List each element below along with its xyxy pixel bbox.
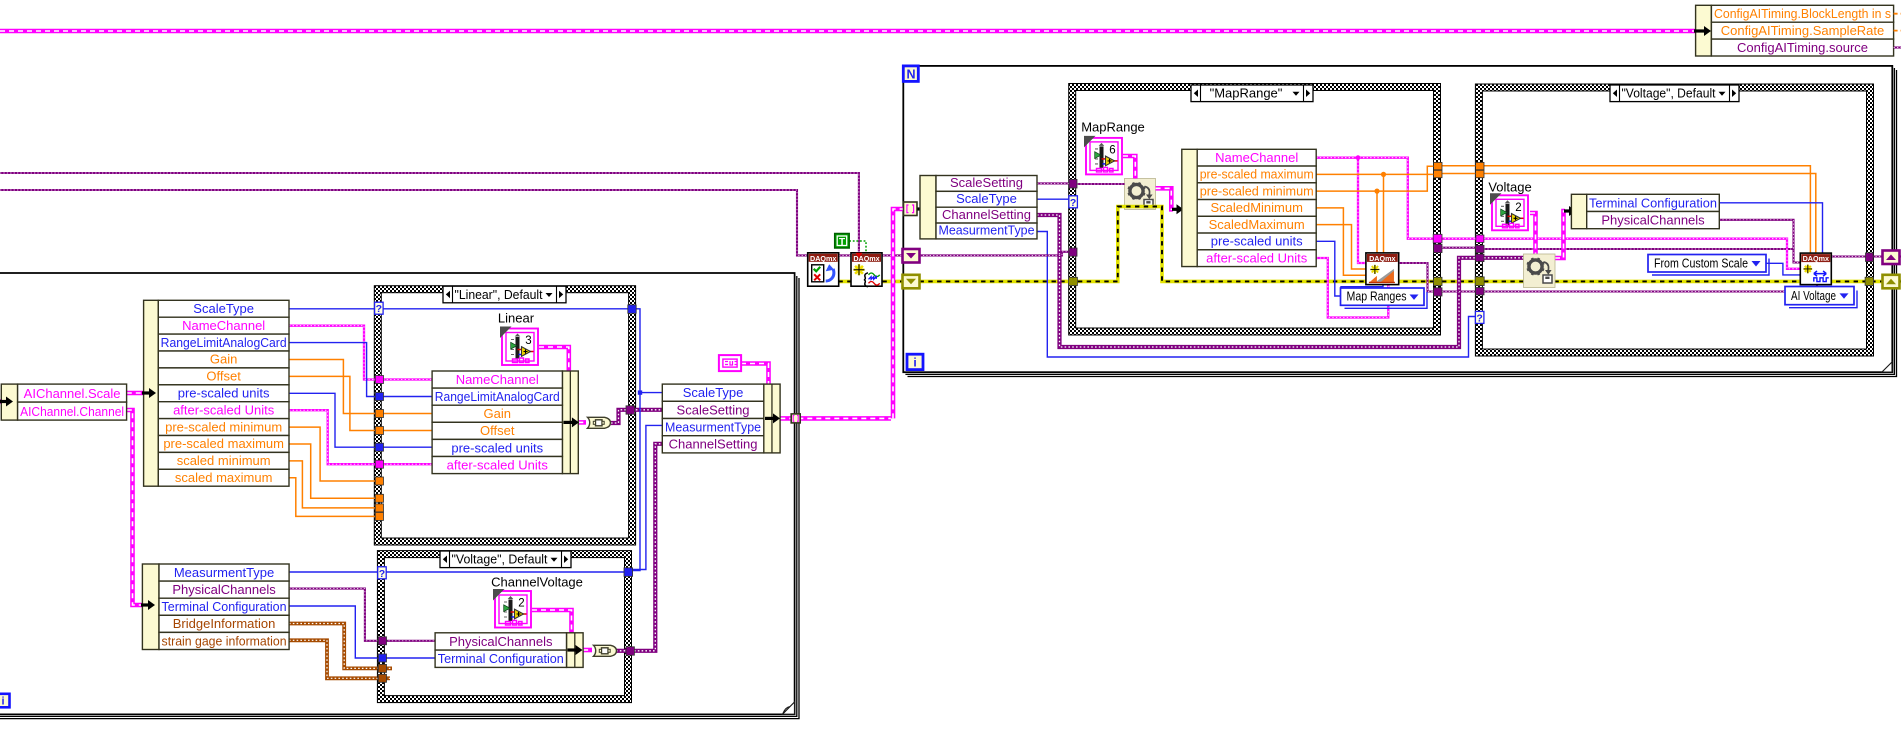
wire BlockLength output stub: [1894, 13, 1901, 15]
wire ChannelSetting wire to bundle: [634, 444, 662, 651]
subVI ChannelVoltage: [493, 589, 531, 628]
tunnel error right: [1434, 277, 1442, 285]
svg-text:pre-scaled maximum: pre-scaled maximum: [1200, 167, 1314, 182]
subVI Voltage: [1490, 193, 1528, 230]
wire task wire stub right edge: [1899, 255, 1901, 257]
tunnel error left V: [1475, 277, 1484, 286]
wire pre-scaled minimum wire: [1316, 166, 1433, 191]
wire channel settings array wire: [780, 416, 891, 421]
tunnel Offset L: [375, 427, 383, 435]
DAQmx Create Scale icon: [1366, 253, 1399, 285]
svg-text:Terminal Configuration: Terminal Configuration: [438, 651, 564, 666]
svg-text:NameChannel: NameChannel: [456, 372, 539, 387]
shift register purple left: [903, 249, 920, 263]
tunnel MeasurmentType out VL: [624, 568, 633, 577]
tunnel error in left: [1069, 277, 1078, 285]
bundle settings cluster: [662, 384, 780, 453]
unbundle AIChannel: [1, 384, 126, 420]
svg-text:3: 3: [525, 335, 531, 347]
junction NameChannel: [1356, 155, 1361, 160]
svg-text:DAQmx: DAQmx: [810, 254, 836, 263]
tunnel PhysicalChannels VL: [378, 637, 386, 645]
svg-text:DAQmx: DAQmx: [1803, 254, 1829, 263]
wire From Custom Scale ring wire: [1766, 263, 1801, 275]
svg-text:Terminal Configuration: Terminal Configuration: [1589, 195, 1717, 210]
wire pre-scaled maximum wire to tunnel: [289, 444, 375, 498]
cluster constant: [719, 355, 741, 371]
coercion dot: [856, 253, 863, 258]
svg-text:NameChannel: NameChannel: [1215, 150, 1298, 165]
wire variant gear 2 output wire: [1555, 211, 1565, 258]
wire NameChannel wire branch to scale VI: [1358, 158, 1367, 263]
ring constant AI Voltage: [1785, 287, 1857, 308]
case structure Linear: [374, 286, 635, 545]
wire bundle 2 output wire to convert: [583, 648, 592, 653]
wire NameChannel wire: [1316, 158, 1433, 239]
svg-text:ChannelVoltage: ChannelVoltage: [491, 575, 583, 590]
svg-text:6: 6: [1109, 144, 1115, 156]
tunnel psmax left V: [1476, 170, 1484, 177]
tunnel Gain L: [375, 410, 383, 418]
selector tunnel MapRange: [1069, 196, 1078, 209]
wire pre-scaled minimum in Voltage case: [1484, 166, 1810, 254]
svg-text:ScaleType: ScaleType: [683, 385, 744, 400]
DAQmx Create Channel icon: [1800, 253, 1831, 285]
tunnel ChannelSetting left V: [1476, 254, 1484, 261]
svg-text:BridgeInformation: BridgeInformation: [173, 616, 276, 631]
wire pre-scaled maximum between cases: [1442, 173, 1476, 175]
case label "Voltage", Default (right): [1610, 85, 1739, 102]
svg-text:ScaleSetting: ScaleSetting: [677, 402, 750, 417]
junction ScaleType: [638, 390, 642, 394]
wire ScaleType wire to selector: [289, 308, 376, 310]
wire purple task wire 2: [0, 190, 903, 255]
svg-text:pre-scaled minimum: pre-scaled minimum: [165, 419, 282, 434]
wire pre-scaled maximum in Voltage case: [1484, 174, 1816, 254]
tunnel task in left: [1069, 248, 1077, 256]
unbundle physical channels: [1571, 194, 1719, 228]
tunnel psmin left V: [1476, 162, 1484, 169]
loop output tunnel []: [791, 414, 800, 423]
unbundle settings in loop: [920, 175, 1037, 239]
svg-text:MapRange: MapRange: [1081, 120, 1145, 135]
wire MeasurmentType wire up to bundle: [632, 425, 662, 569]
wire error wire stub right edge: [1899, 280, 1901, 284]
tunnel ScaleSetting out L: [626, 406, 634, 414]
junction pre-scaled minimum: [1374, 189, 1379, 194]
convert icon Voltage: [594, 645, 617, 656]
svg-text:"Voltage", Default: "Voltage", Default: [1622, 86, 1716, 101]
svg-text:after-scaled Units: after-scaled Units: [447, 457, 549, 472]
wire task wire in Voltage case: [1484, 249, 1801, 263]
wire RangeLimitAnalogCard wire in case: [383, 396, 432, 398]
wire BridgeInformation stub in case: [385, 667, 392, 671]
wire MapRange VI output wire: [1123, 156, 1135, 179]
svg-text:scaled minimum: scaled minimum: [177, 453, 271, 468]
tunnel NameChannel right: [1433, 234, 1442, 243]
svg-text:"MapRange": "MapRange": [1210, 86, 1283, 101]
input arrow AIChannel: [0, 397, 13, 407]
svg-text:ConfigAITiming.source: ConfigAITiming.source: [1737, 40, 1868, 55]
svg-text:?: ?: [1476, 312, 1482, 324]
svg-text:PhysicalChannels: PhysicalChannels: [172, 582, 276, 597]
svg-text:ConfigAITiming.BlockLength in: ConfigAITiming.BlockLength in s: [1714, 6, 1891, 21]
svg-text:ChannelSetting: ChannelSetting: [669, 437, 758, 452]
boolean constant T: [835, 234, 850, 249]
svg-text:Gain: Gain: [210, 352, 237, 367]
unbundle scale settings: [144, 300, 289, 486]
output arrow settings cluster: [765, 413, 780, 423]
wire ScaleSetting wire: [1037, 182, 1069, 184]
wire Terminal Configuration wire: [1719, 203, 1823, 254]
tunnel error out right V: [1865, 277, 1873, 285]
wire pre-scaled minimum between cases: [1442, 165, 1476, 167]
svg-text:pre-scaled units: pre-scaled units: [1211, 234, 1303, 249]
wire scale task out wire: [1399, 263, 1434, 292]
tunnel scale task right: [1434, 288, 1442, 296]
wire NameChannel wire to Linear case: [289, 326, 375, 380]
tunnel strain VL: [378, 674, 386, 682]
wire ChannelVoltage VI output wire: [532, 610, 572, 633]
svg-text:"Voltage", Default: "Voltage", Default: [452, 552, 548, 567]
svg-text:ConfigAITiming.SampleRate: ConfigAITiming.SampleRate: [1721, 23, 1885, 38]
wire NameChannel wire in case: [383, 378, 432, 380]
tunnel pre-scaled min L: [375, 477, 383, 485]
wire strain gage stub in case: [385, 676, 390, 680]
svg-text:MeasurmentType: MeasurmentType: [174, 565, 274, 580]
wire Gain wire: [289, 360, 375, 414]
wire PhysicalChannels wire to case: [289, 589, 377, 641]
tunnel scale task left V: [1476, 288, 1484, 295]
svg-text:after-scaled Units: after-scaled Units: [1206, 250, 1308, 265]
svg-text:Offset: Offset: [480, 423, 515, 438]
wire ChannelSetting wire to variant gear 2: [1484, 256, 1524, 260]
svg-text:Terminal Configuration: Terminal Configuration: [162, 599, 287, 614]
wire AIChannel cluster input stub: [0, 399, 2, 404]
svg-text:ScaledMinimum: ScaledMinimum: [1210, 200, 1302, 215]
svg-text:From Custom Scale: From Custom Scale: [1654, 255, 1748, 270]
svg-text:Map Ranges: Map Ranges: [1347, 289, 1407, 304]
wire scale task between cases: [1442, 290, 1476, 292]
tunnel RangeLimit L: [375, 393, 383, 401]
wire ScaledMinimum wire: [1316, 208, 1367, 275]
wire channel cluster wire out of case: [616, 649, 626, 653]
svg-text:strain gage information: strain gage information: [162, 633, 287, 648]
wire error wire in Voltage case to SR: [1484, 280, 1883, 284]
wire ChannelSetting under-route wire: [1037, 215, 1476, 347]
selector tunnel Voltage right: [1475, 311, 1484, 324]
loop input tunnel []: [904, 202, 918, 216]
svg-text:PhysicalChannels: PhysicalChannels: [449, 634, 553, 649]
input arrow channel settings: [141, 600, 155, 610]
svg-text:i: i: [1, 696, 4, 708]
svg-text:"Linear", Default: "Linear", Default: [455, 287, 543, 302]
wire MeasurmentType wire through case: [385, 571, 624, 573]
shift register error left: [903, 275, 920, 289]
svg-text:Gain: Gain: [484, 406, 511, 421]
unbundle channel settings: [142, 564, 289, 650]
subVI MapRange: [1084, 136, 1122, 175]
wire AIChannel.Scale wire: [127, 391, 144, 396]
input arrow ConfigAITiming: [1694, 26, 1711, 36]
wire scale cluster wire out of Linear case: [611, 410, 628, 423]
wire channel settings wire up to loop: [893, 209, 903, 418]
ring constant Map Ranges: [1341, 288, 1428, 308]
wire Offset wire: [289, 376, 375, 430]
wire ScaleType selector wire: [1037, 198, 1069, 200]
tunnel task out right V: [1866, 253, 1874, 262]
svg-text:after-scaled Units: after-scaled Units: [173, 402, 275, 417]
wire Voltage VI output wire: [1530, 213, 1536, 254]
svg-text:MeasurmentType: MeasurmentType: [665, 420, 761, 435]
tunnel scaled max L: [375, 512, 383, 520]
wire error wire between cases: [1442, 280, 1476, 284]
wire scaled minimum wire to tunnel: [289, 461, 375, 508]
tunnel ChannelSetting out VL: [626, 647, 634, 655]
selector tunnel Linear: [375, 302, 384, 315]
tunnel NameChannel L: [375, 376, 383, 384]
bundle Voltage channel: [435, 633, 583, 668]
tunnel scaled min L: [375, 504, 383, 512]
case label "Linear", Default: [443, 286, 566, 303]
wire pre-scaled units wire: [289, 393, 375, 447]
output arrow bundle Linear: [564, 417, 579, 427]
wire Linear VI output wire: [539, 347, 569, 371]
svg-text:?: ?: [1070, 197, 1076, 209]
svg-text:pre-scaled maximum: pre-scaled maximum: [163, 436, 284, 451]
svg-text:scaled maximum: scaled maximum: [175, 470, 273, 485]
wire pre-scaled maximum branch to scale VI: [1383, 174, 1385, 254]
svg-text:N: N: [906, 67, 915, 81]
case structure Voltage right: [1475, 84, 1873, 356]
wire scale task in Voltage case: [1484, 285, 1817, 292]
convert icon Linear: [588, 417, 611, 428]
svg-text:pre-scaled units: pre-scaled units: [451, 440, 543, 455]
wire SampleRate output stub: [1894, 30, 1901, 32]
wire task wire from shift register to case: [920, 252, 1070, 256]
input arrow loop cluster: [918, 204, 934, 214]
wire PhysicalChannels wire in case: [385, 640, 435, 642]
wire variant gear output wire: [1156, 188, 1173, 209]
wire ScaleType wire into bundle: [640, 392, 662, 394]
wire after-scaled Units wire in case: [383, 463, 432, 465]
wire Terminal Configuration wire to case: [289, 606, 377, 658]
wire Gain wire in case: [383, 413, 432, 415]
svg-text:?: ?: [379, 568, 385, 580]
svg-text:NameChannel: NameChannel: [182, 318, 265, 333]
svg-text:AI Voltage: AI Voltage: [1791, 288, 1836, 303]
svg-text:ScaleSetting: ScaleSetting: [950, 175, 1023, 190]
tunnel TerminalConfig VL: [378, 654, 386, 662]
svg-text:RangeLimitAnalogCard: RangeLimitAnalogCard: [161, 335, 287, 350]
wire NameChannel wire between cases: [1441, 238, 1476, 240]
for loop iteration terminal i: [907, 354, 923, 369]
wire after-scaled Units wire to case: [289, 410, 375, 464]
variant-to-data U1 (MapRange case): [1125, 179, 1156, 210]
wire boolean wire from T constant: [849, 241, 866, 252]
tunnel NameChannel left V: [1476, 235, 1484, 242]
wire ScaleType wire through Linear case: [383, 308, 628, 310]
wire RangeLimitAnalogCard wire: [289, 343, 375, 397]
svg-text:RangeLimitAnalogCard: RangeLimitAnalogCard: [435, 389, 560, 404]
for loop dog-ear corner: [1882, 362, 1892, 372]
svg-text:2: 2: [518, 598, 524, 610]
wire task wire segment between cases: [1442, 247, 1476, 249]
tunnel pre-scaled max L: [375, 494, 383, 502]
wire PhysicalChannels wire: [1719, 220, 1794, 250]
tunnel task right: [1434, 244, 1442, 252]
tunnel ScaleType out L: [628, 305, 636, 313]
wire pre-scaled units wire in case: [383, 446, 432, 448]
svg-text:AIChannel.Scale: AIChannel.Scale: [24, 386, 121, 401]
wire ScaleType wire down right side: [630, 309, 640, 571]
svg-text:?: ?: [376, 303, 382, 315]
bundle Linear scale: [432, 371, 578, 474]
selector tunnel Voltage lower: [378, 567, 387, 580]
wire scaled maximum wire to tunnel: [289, 478, 375, 517]
svg-text:PhysicalChannels: PhysicalChannels: [1601, 213, 1705, 228]
wire strain gage information wire: [289, 640, 377, 678]
wire MeasurmentType wire to selector: [289, 571, 377, 573]
unbundle map ranges: [1182, 149, 1316, 266]
tunnel task left V: [1476, 245, 1484, 252]
case structure Voltage lower: [377, 551, 631, 703]
tunnel psmax right: [1434, 170, 1442, 177]
svg-text:2: 2: [1515, 202, 1521, 214]
svg-text:DAQmx: DAQmx: [1369, 254, 1395, 263]
svg-text:MeasurmentType: MeasurmentType: [939, 223, 1035, 238]
input arrow ranges cluster: [1172, 204, 1184, 214]
while loop iteration terminal i: [0, 694, 10, 708]
wire Offset wire in case: [383, 430, 432, 432]
output arrow bundle Voltage: [568, 645, 583, 655]
shift register purple right: [1883, 251, 1900, 265]
wire pre-scaled units wire to ring: [1316, 241, 1340, 296]
svg-text:ScaledMaximum: ScaledMaximum: [1209, 217, 1305, 232]
input arrow scale settings: [142, 388, 156, 398]
wire error wire inside loop: [920, 207, 1434, 282]
svg-text:Offset: Offset: [206, 369, 241, 384]
wire pre-scaled minimum branch to scale VI: [1376, 191, 1378, 254]
case structure MapRange: [1069, 84, 1441, 336]
for loop count terminal N: [903, 66, 918, 82]
svg-text:Linear: Linear: [498, 311, 535, 326]
case label "MapRange": [1191, 85, 1313, 102]
variant-to-data U2 (Voltage case): [1524, 254, 1556, 288]
wire NameChannel wire in Voltage case: [1484, 239, 1801, 269]
wire task out wire to shift register: [1831, 255, 1883, 257]
DAQmx Create Task icon: [851, 253, 882, 287]
wire error wire outside loop: [812, 280, 903, 284]
svg-text:i: i: [913, 356, 916, 370]
unbundle ConfigAITiming: [1696, 5, 1894, 56]
wire source output stub: [1894, 46, 1901, 48]
DAQmx Clear Task icon: [808, 253, 839, 286]
wire top task wire to ConfigAITiming unbundle: [0, 29, 1697, 34]
junction pre-scaled maximum: [1381, 172, 1386, 177]
svg-text:Voltage: Voltage: [1488, 180, 1531, 195]
wire bundle output wire to convert: [578, 420, 586, 425]
wire BridgeInformation wire: [289, 624, 377, 669]
tunnel pre-scaled units L: [375, 443, 383, 451]
svg-text:AIChannel.Channel: AIChannel.Channel: [20, 404, 124, 419]
svg-text:pre-scaled units: pre-scaled units: [178, 386, 270, 401]
wire Terminal Configuration wire in case: [385, 657, 435, 659]
wire purple task wire 1: [0, 173, 859, 252]
tunnel ScaleSetting: [1069, 179, 1077, 188]
for loop border: [903, 66, 1896, 377]
svg-text:pre-scaled minimum: pre-scaled minimum: [1200, 183, 1314, 198]
wire ScaleSetting wire in case: [1077, 183, 1125, 185]
wire cluster type wire: [741, 364, 769, 385]
wire MeasurmentType under-route wire: [1037, 232, 1476, 358]
wire ScaledMaximum wire: [1316, 225, 1367, 269]
wire after-scaled Units wire: [1316, 258, 1388, 318]
wire AIChannel.Channel wire: [127, 410, 144, 605]
wire pre-scaled minimum wire to tunnel: [289, 427, 375, 481]
case label "Voltage", Default (lower): [440, 551, 571, 568]
svg-text:ScaleType: ScaleType: [956, 191, 1017, 206]
while loop dog-ear corner: [783, 702, 795, 714]
svg-text:ScaleType: ScaleType: [193, 301, 254, 316]
tunnel psmin right: [1434, 162, 1442, 169]
svg-text:T: T: [839, 237, 845, 248]
subVI Linear: [500, 327, 538, 366]
while loop (left, clipped): [0, 273, 799, 719]
svg-text:ChannelSetting: ChannelSetting: [942, 207, 1031, 222]
input arrow physical channels: [1564, 206, 1576, 216]
ring constant From Custom Scale: [1648, 255, 1769, 276]
wire scale units ring wire: [1341, 285, 1383, 289]
wire pre-scaled maximum wire: [1316, 173, 1433, 175]
shift register error right: [1883, 275, 1900, 289]
tunnel after-scaled L: [375, 460, 383, 468]
tunnel Bridge VL: [378, 664, 386, 672]
wire ScaleSetting wire to bundle: [632, 408, 662, 412]
